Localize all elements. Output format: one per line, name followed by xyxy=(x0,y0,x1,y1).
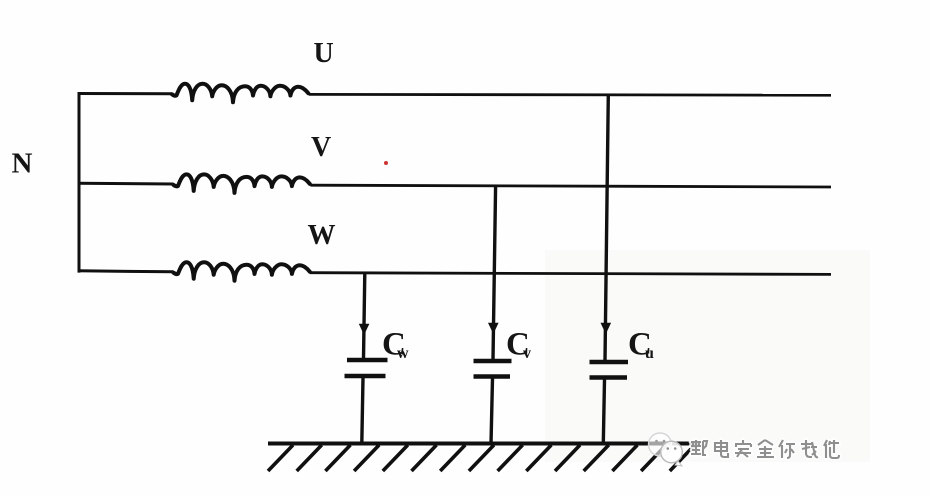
svg-text:V: V xyxy=(311,132,331,163)
arrow on Cw branch xyxy=(359,324,370,335)
capacitor Cu top plate xyxy=(590,360,629,364)
arrow on Cu branch xyxy=(601,323,612,334)
capacitor Cw bottom plate xyxy=(345,374,386,378)
ground bar xyxy=(268,442,700,446)
capacitor Cv top plate xyxy=(474,359,512,363)
svg-text:W: W xyxy=(308,220,336,251)
svg-text:v: v xyxy=(523,345,531,362)
inductor winding U xyxy=(172,84,308,103)
watermark text (faux CJK glyph strokes with white halo) xyxy=(691,440,839,458)
inductor winding W xyxy=(174,262,310,281)
svg-text:N: N xyxy=(12,148,33,180)
capacitor Cw top plate xyxy=(347,358,388,362)
ground hatching xyxy=(268,445,695,471)
wire W right segment xyxy=(310,273,831,275)
capacitor Cu bottom plate xyxy=(590,375,628,379)
wire U right segment xyxy=(309,93,831,97)
wire Cv branch upper xyxy=(493,185,496,359)
wire Cw branch upper xyxy=(364,273,365,359)
wire Cu branch lower xyxy=(603,380,604,444)
wire Cw branch lower xyxy=(362,378,363,444)
wire U left segment xyxy=(78,92,173,95)
wire W left segment xyxy=(78,271,174,272)
wire V left segment xyxy=(78,182,174,186)
svg-text:w: w xyxy=(397,345,409,362)
watermark logo bubble 2 xyxy=(661,441,683,466)
wire neutral bus vertical xyxy=(78,92,81,272)
wire Cu branch upper xyxy=(605,95,608,361)
wire Cv branch lower xyxy=(491,379,493,444)
wire V right segment xyxy=(311,185,832,187)
svg-text:u: u xyxy=(645,345,654,362)
inductor winding V xyxy=(174,174,310,193)
stray red dot xyxy=(384,161,388,165)
watermark logo bubble 1 xyxy=(649,433,672,456)
svg-text:U: U xyxy=(314,38,334,69)
capacitor Cv bottom plate xyxy=(474,374,511,378)
arrow on Cv branch xyxy=(488,323,499,334)
